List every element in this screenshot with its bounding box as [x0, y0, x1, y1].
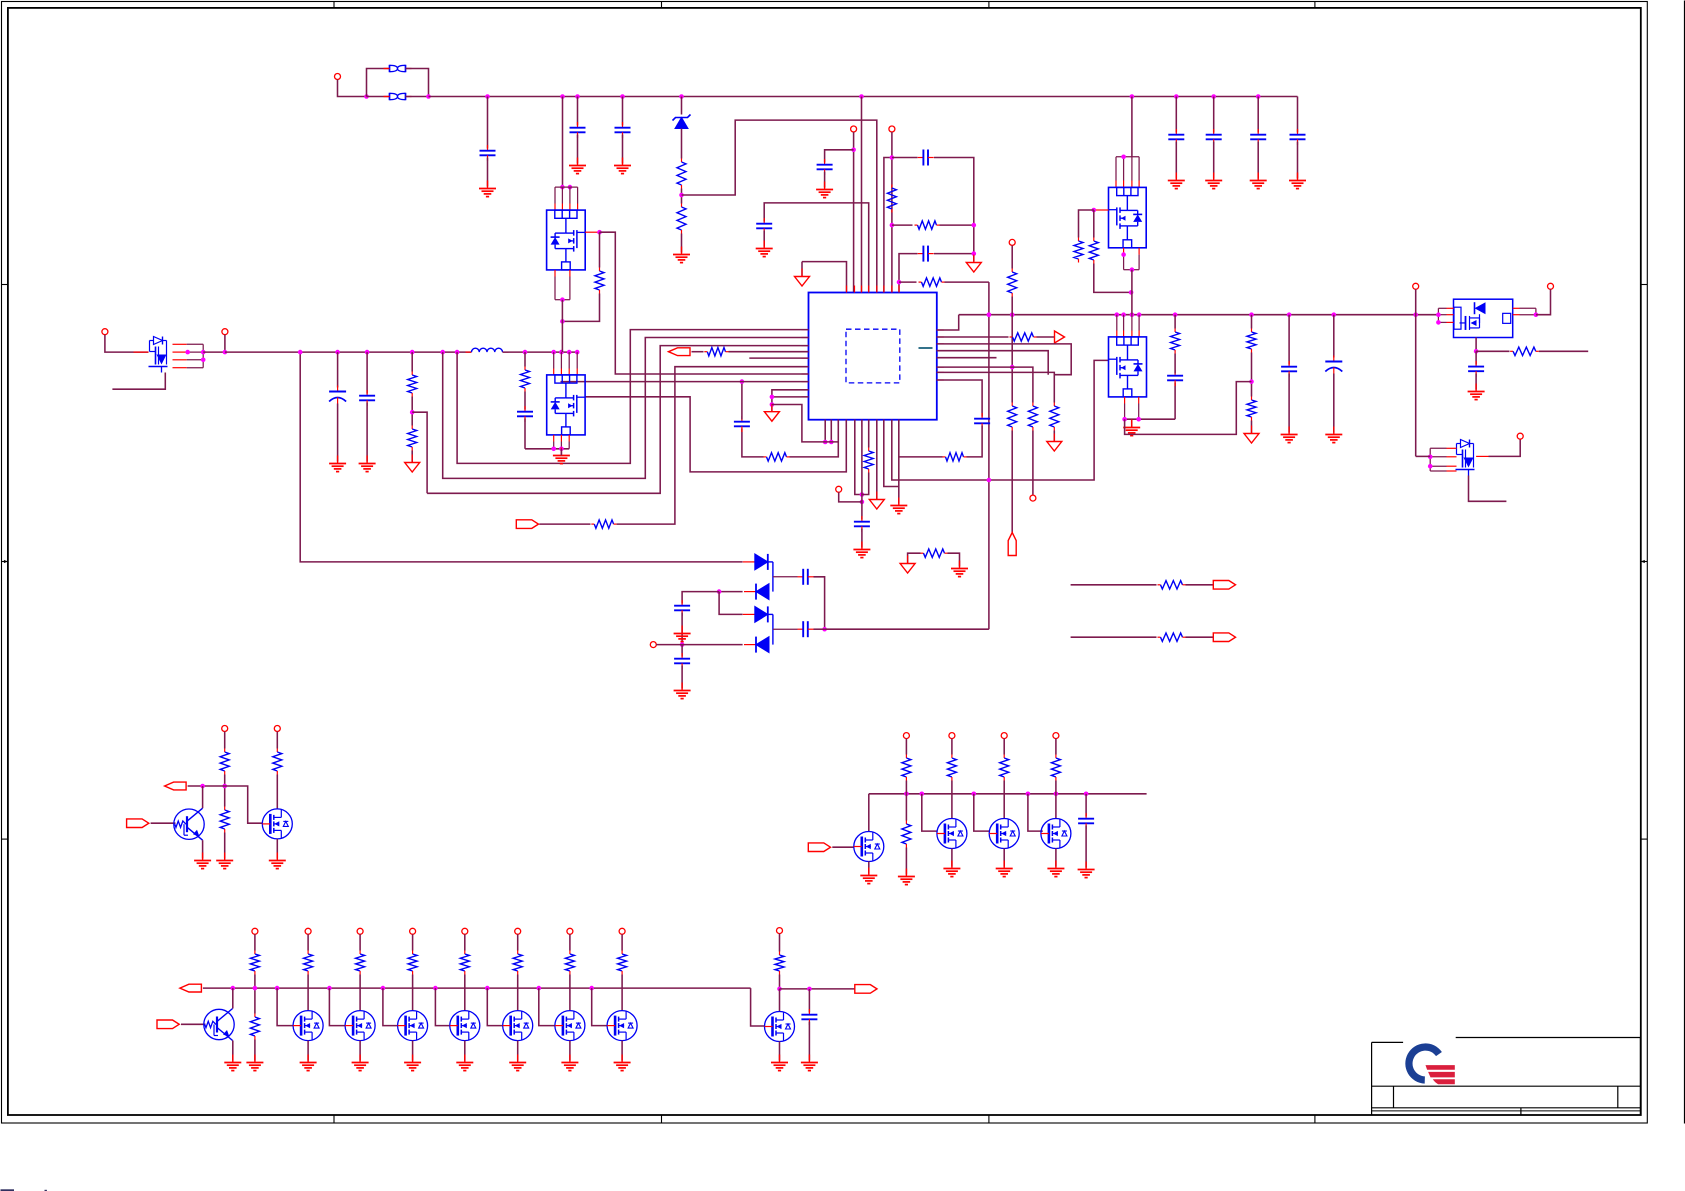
wire: [763, 231, 765, 247]
wire source loop Q2: [555, 270, 570, 300]
wire: [772, 396, 809, 398]
transistor Q8: [174, 808, 204, 840]
wire: [562, 294, 599, 322]
wire: [367, 96, 390, 98]
junction at 1251,314.2: [1249, 312, 1254, 317]
wire: [525, 448, 569, 450]
transistor Q3: [547, 375, 585, 435]
wire: [359, 1041, 361, 1061]
ground GND: [853, 542, 870, 558]
wire: [945, 281, 989, 283]
wire: [232, 1041, 234, 1061]
wire: [937, 357, 997, 359]
wire: [741, 382, 743, 420]
wire: [560, 449, 562, 456]
wire: [779, 1042, 781, 1061]
capacitor C3: [615, 122, 631, 138]
junction at 1437.9,321.9: [1436, 320, 1441, 325]
wire: [937, 344, 1071, 375]
wire: [621, 934, 623, 950]
wire: [681, 234, 683, 253]
resistor R14: [408, 426, 417, 451]
pin P25: [567, 928, 573, 934]
ground GND: [509, 1055, 526, 1071]
junction at 224.2,785.5: [222, 784, 227, 789]
resistor R23: [1510, 347, 1539, 355]
junction at 254.4,987.6: [253, 986, 258, 991]
wire: [224, 335, 226, 352]
wire: [599, 232, 601, 267]
resistor R12: [864, 448, 873, 473]
ground GND: [1168, 173, 1185, 189]
ground AGND: [1244, 426, 1259, 444]
wire: [464, 1041, 466, 1061]
wire gate drive low-left: [586, 397, 847, 472]
junction at 576.7,351.6: [575, 350, 580, 355]
wire: [1003, 849, 1005, 867]
capacitor C24: [1468, 361, 1484, 377]
wire: [773, 628, 798, 630]
wire: [937, 351, 1048, 375]
transistor Q16: [345, 1011, 375, 1041]
zener diode D5: [673, 115, 691, 129]
wire: [276, 775, 278, 809]
net tag NET: [1213, 633, 1235, 642]
ground GND: [890, 498, 907, 514]
resistor R39: [513, 951, 522, 975]
resistor R1: [677, 159, 686, 189]
wire: [937, 336, 1009, 338]
ground GND: [816, 182, 833, 198]
ground GND: [300, 1055, 317, 1071]
wire: [1003, 739, 1005, 755]
wire: [899, 456, 943, 458]
resistor R28: [220, 807, 229, 833]
wire: [561, 300, 563, 352]
capacitor C11: [918, 246, 934, 262]
wire: [899, 254, 918, 293]
resistor R21: [1247, 329, 1256, 353]
junction at 808.9,988.4: [807, 987, 812, 992]
wire: [974, 794, 989, 831]
wire: [1288, 374, 1290, 433]
wire: [1475, 338, 1477, 352]
junction at 861.4,501.4: [860, 500, 865, 505]
wire: [1175, 142, 1177, 179]
ground GND: [269, 853, 286, 869]
wire: [905, 848, 907, 875]
resistor R32: [1051, 755, 1060, 781]
wire: [1125, 418, 1176, 420]
junction at 898.5,281.6: [897, 280, 902, 285]
junction at 411.7,351.6: [410, 350, 415, 355]
ground GND: [1250, 173, 1267, 189]
junction at 771.4,404: [770, 402, 775, 407]
junction at 973.3,224.6: [972, 223, 977, 228]
junction at 202.1,785.5: [200, 784, 205, 789]
inductor L1: [466, 348, 509, 352]
wire: [1469, 476, 1507, 502]
resistor R17: [595, 268, 604, 294]
pin P18: [1053, 733, 1059, 739]
pin P12: [1517, 433, 1523, 439]
wire: [1489, 439, 1521, 456]
wire: [779, 975, 781, 989]
ground GND: [673, 247, 690, 263]
wire: [1055, 739, 1057, 755]
wire: [891, 132, 893, 293]
resistor R34: [250, 951, 259, 975]
wire: [905, 739, 907, 755]
wire: [681, 189, 683, 204]
pin P27: [777, 928, 783, 934]
ground GND: [246, 1055, 263, 1071]
ground AGND: [405, 455, 420, 473]
wire: [772, 405, 838, 442]
junction at 328.9,987.6: [327, 986, 332, 991]
wire: [366, 352, 368, 393]
ground GND: [194, 853, 211, 869]
wire: [577, 97, 579, 126]
junction at 434.9,987.6: [433, 986, 438, 991]
junction at 1333.3,314.2: [1332, 312, 1337, 317]
junction at 1055.4,793.3: [1054, 792, 1059, 797]
wire: [383, 988, 398, 1026]
junction at 337.1,351.6: [335, 350, 340, 355]
wire A: [457, 330, 808, 464]
capacitor C15: [674, 600, 690, 616]
transistor Q11: [937, 819, 967, 849]
wire: [276, 839, 278, 859]
wire dangling: [749, 357, 808, 359]
junction at 202.7,351.6: [201, 350, 206, 355]
pin P23: [462, 928, 468, 934]
ground GND: [359, 456, 376, 472]
wire: [876, 420, 878, 500]
capacitor C4: [1168, 129, 1184, 145]
wire: [134, 351, 149, 353]
resistor R5: [919, 278, 945, 286]
junction at 561.9,299.2: [560, 297, 565, 302]
wire fuse loop top: [367, 69, 390, 97]
wire: [411, 451, 413, 463]
wire: [435, 988, 449, 1026]
junction at 771.4,396.4: [770, 395, 775, 400]
ground PGND: [553, 448, 570, 464]
wire main top bus: [429, 96, 1298, 98]
ground GND: [674, 626, 691, 642]
wire: [868, 420, 870, 448]
junction at 560.9,351.6: [559, 350, 564, 355]
wire: [861, 97, 863, 293]
wire: [524, 419, 526, 449]
junction at 577,96: [575, 94, 580, 99]
wire: [112, 373, 165, 390]
resistor R44: [921, 549, 948, 557]
wire: [181, 1023, 206, 1025]
pin P14: [274, 726, 280, 732]
capacitor C20: [517, 406, 533, 422]
wire: [622, 97, 624, 126]
wire: [1333, 374, 1335, 433]
wire: [517, 975, 519, 1011]
junction at 1123.1,156.3: [1121, 155, 1126, 160]
wire: [742, 429, 764, 457]
ground GND: [216, 853, 233, 869]
wire: [276, 732, 278, 749]
ic U1 pin stubs: [802, 286, 944, 427]
junction at 830.8,441.5: [829, 440, 834, 445]
transistor Q20: [555, 1011, 585, 1041]
wire: [487, 97, 489, 149]
pin P4: [1009, 239, 1015, 245]
wire: [1125, 382, 1252, 435]
pin P19: [252, 928, 258, 934]
ground GND: [479, 181, 496, 197]
wire: [300, 352, 742, 562]
junction at 1138.6,314.2: [1137, 312, 1142, 317]
net tag NET: [855, 985, 877, 994]
wire: [681, 613, 683, 645]
resistor R13: [408, 372, 417, 397]
wire: [412, 975, 414, 1011]
transistor Q13: [1041, 819, 1071, 849]
wire: [621, 1041, 623, 1061]
net tag NET: [127, 819, 149, 828]
wire: [1055, 849, 1057, 867]
resistor R15: [591, 520, 616, 528]
pin P26: [619, 928, 625, 934]
wire: [855, 420, 862, 495]
pin P17: [1001, 733, 1007, 739]
capacitor C17: [674, 653, 690, 669]
wire: [411, 397, 413, 426]
junction at 1027.4,793.3: [1026, 792, 1031, 797]
ic U1 marker: [919, 347, 933, 349]
transistor Q7: [1456, 440, 1475, 476]
diode D3: [743, 606, 768, 622]
wire C: [427, 346, 808, 494]
wire mid bus: [225, 351, 472, 353]
wire: [951, 849, 953, 867]
wire: [1476, 455, 1488, 457]
wire: [1071, 584, 1157, 586]
junction at 921.3,793.3: [920, 792, 925, 797]
junction at 232.3,987.6: [231, 986, 236, 991]
wire: [503, 351, 578, 353]
wire: [868, 862, 870, 874]
diode D2: [744, 584, 769, 600]
net tag NET: [808, 843, 830, 852]
junction at 905.9,793.3: [904, 792, 909, 797]
junction at 1174.6,314.2: [1173, 312, 1178, 317]
pin P11: [1548, 283, 1554, 289]
wire: [254, 934, 256, 950]
resistor R43: [775, 952, 784, 975]
wire: [801, 262, 803, 277]
wire output bracket Q6: [1513, 308, 1536, 314]
ground GND: [1078, 862, 1095, 878]
capacitor C1: [480, 145, 496, 161]
pin P7: [650, 642, 656, 648]
wire: [681, 129, 683, 159]
wire: [892, 157, 918, 159]
wire: [656, 644, 742, 646]
wire: [1011, 297, 1013, 315]
wire phase node: [959, 314, 1439, 316]
fuse F2: [384, 93, 412, 100]
pin P9: [222, 329, 228, 335]
ground GND: [674, 683, 691, 699]
wire: [948, 553, 960, 566]
wire: [622, 135, 624, 164]
junction at 1475.6,350.8: [1474, 349, 1479, 354]
capacitor C10: [918, 150, 934, 166]
resistor R40: [565, 951, 574, 975]
resistor R26: [220, 749, 229, 775]
junction at 442.2,351.6: [440, 350, 445, 355]
junction at 1213.2,96: [1211, 94, 1216, 99]
wire: [539, 988, 555, 1026]
wire: [1251, 421, 1253, 434]
wire: [779, 934, 781, 952]
ground GND: [756, 241, 773, 257]
wire: [764, 203, 869, 293]
wire: [937, 372, 1055, 402]
wire: [359, 934, 361, 950]
wire: [808, 989, 810, 1013]
wire: [951, 739, 953, 755]
wire: [561, 381, 809, 383]
transistor Q5: [1109, 337, 1147, 397]
junction at 1131.4,269.2: [1130, 267, 1135, 272]
ground GND: [561, 1055, 578, 1071]
wire: [1174, 315, 1176, 329]
wire: [277, 988, 293, 1026]
wire: [1536, 289, 1551, 314]
wire: [751, 988, 765, 1026]
wire: [922, 794, 937, 831]
ground GND: [1325, 427, 1342, 443]
wire: [359, 975, 361, 1011]
resistor R6: [1008, 269, 1017, 297]
transistor Q2: [547, 210, 586, 270]
junction at 1251,381.1: [1249, 379, 1254, 384]
wire: [569, 1041, 571, 1061]
ground GND: [456, 1055, 473, 1071]
wire: [861, 529, 863, 548]
wire: [839, 492, 862, 502]
junction at 1011.7,366.6: [1010, 365, 1015, 370]
wire: [524, 392, 526, 410]
wire: [1131, 97, 1133, 157]
net tag NET: [1213, 581, 1235, 590]
wire: [1011, 431, 1013, 533]
capacitor C26: [801, 1009, 817, 1025]
wire: [411, 352, 413, 371]
wire: [719, 591, 743, 593]
wire: [621, 975, 623, 1011]
junction at 1130.6,291.9: [1129, 290, 1134, 295]
resistor R27: [273, 749, 282, 775]
wire: [517, 1041, 519, 1061]
power flag PWR: [1008, 533, 1016, 556]
junction at 1429.7,456.3: [1428, 455, 1433, 460]
transistor Q4: [1109, 187, 1147, 247]
junction at 553.2,351.6: [551, 350, 556, 355]
wire: [577, 135, 579, 164]
wire vertical boot: [988, 282, 990, 629]
wire: [1476, 350, 1509, 352]
ground AGND: [900, 556, 915, 574]
ground GND: [1281, 427, 1298, 443]
wire drain loop Q2: [555, 187, 578, 210]
wire: [1186, 636, 1214, 638]
ground GND: [1289, 173, 1306, 189]
wire input bracket Q6: [1438, 308, 1453, 322]
resistor R46: [764, 453, 790, 461]
transistor Q17: [398, 1011, 428, 1041]
wire: [585, 231, 599, 233]
wire: [592, 988, 607, 1026]
wire: [905, 794, 907, 821]
wire node B: [768, 613, 773, 615]
wire: [832, 846, 854, 848]
junction at 428,96: [426, 94, 431, 99]
capacitor C12: [974, 413, 990, 429]
junction at 538.3,987.6: [537, 986, 542, 991]
wire drain loop Q3: [554, 352, 578, 375]
junction at 1124.1,418.7: [1122, 417, 1127, 422]
junction at 973.3,793.3: [972, 792, 977, 797]
wire: [151, 822, 176, 824]
wire: [338, 80, 367, 97]
wire: [1288, 315, 1290, 365]
junction at 1123.1,314.2: [1121, 312, 1126, 317]
wire: [905, 781, 907, 794]
wire source loop Q4: [1124, 248, 1140, 270]
ground GND: [1468, 384, 1485, 400]
transistor Q6: [1454, 299, 1513, 337]
wire: [524, 352, 526, 366]
junction at 779,988.4: [777, 987, 782, 992]
ground AGND: [869, 492, 884, 510]
wire: [937, 380, 982, 417]
wire: [1251, 315, 1253, 329]
wire: [517, 934, 519, 950]
pin P8: [102, 329, 108, 335]
wire: [719, 592, 743, 615]
junction at 560.9,448.3: [559, 447, 564, 452]
capacitor C19: [359, 390, 375, 406]
junction at 591.2,987.6: [589, 986, 594, 991]
wire: [1093, 210, 1095, 238]
clipped text artifact: [1, 1189, 47, 1191]
wire: [937, 367, 1033, 402]
resistor R37: [408, 951, 417, 975]
junction at 1138.2,418.7: [1136, 417, 1141, 422]
wire: [487, 158, 489, 187]
wire: [337, 352, 339, 387]
wire: [1085, 826, 1087, 868]
junction at 741.4,381.1: [740, 379, 745, 384]
ground AGND: [764, 404, 779, 422]
pin P15: [903, 733, 909, 739]
wire: [681, 97, 683, 115]
junction at 524.5,351.6: [523, 350, 528, 355]
junction at 487,96: [485, 94, 490, 99]
resistor R31: [1000, 755, 1009, 781]
